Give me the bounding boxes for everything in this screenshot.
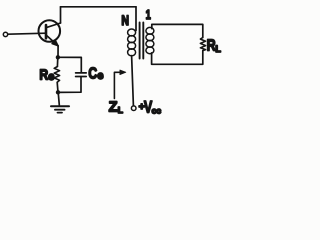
wire emitter down bbox=[57, 46, 59, 58]
wire primary bottom lead bbox=[132, 56, 134, 106]
input terminal bbox=[3, 32, 7, 36]
svg-text:L: L bbox=[215, 44, 221, 54]
node bottom junction bbox=[56, 90, 60, 94]
wire secondary bottom bbox=[152, 51, 203, 65]
svg-text:Z: Z bbox=[109, 99, 118, 115]
transistor Q1 collector bbox=[46, 23, 60, 28]
transistor Q1 circle bbox=[39, 20, 61, 42]
wire collector to top bbox=[60, 7, 62, 23]
svg-text:e: e bbox=[48, 71, 54, 83]
wire Re to bottom node bbox=[56, 82, 59, 92]
ground bbox=[51, 105, 69, 107]
svg-text:cc: cc bbox=[152, 106, 162, 116]
wire base input bbox=[8, 33, 46, 34]
wire Ce branch bottom bbox=[58, 77, 81, 92]
wire top rail bbox=[61, 6, 137, 8]
wire emitter node to Re bbox=[56, 57, 58, 66]
wire Ce branch top bbox=[58, 57, 81, 72]
svg-text:L: L bbox=[118, 105, 123, 115]
transformer T1 primary winding bbox=[128, 29, 136, 56]
transistor Q1 base bar bbox=[45, 25, 48, 38]
terminal Vcc bbox=[131, 106, 136, 111]
svg-text:R: R bbox=[39, 67, 48, 84]
resistor Re bbox=[54, 67, 59, 83]
wire secondary top bbox=[152, 24, 203, 37]
svg-text:N: N bbox=[121, 13, 129, 28]
transistor Q1 emitter bbox=[46, 35, 58, 46]
transformer T1 core bbox=[140, 23, 144, 59]
capacitor Ce bbox=[76, 73, 87, 77]
arrow ZL bbox=[114, 72, 120, 98]
wire node to ground bbox=[58, 92, 59, 105]
wire primary top lead bbox=[135, 7, 137, 31]
node emitter junction bbox=[56, 55, 60, 59]
transistor Q1 emitter arrowhead bbox=[52, 40, 59, 46]
svg-text:C: C bbox=[88, 65, 97, 82]
svg-text:e: e bbox=[97, 70, 103, 82]
svg-text:1: 1 bbox=[146, 7, 151, 22]
transformer T1 secondary winding bbox=[146, 27, 154, 53]
resistor RL bbox=[200, 38, 205, 51]
